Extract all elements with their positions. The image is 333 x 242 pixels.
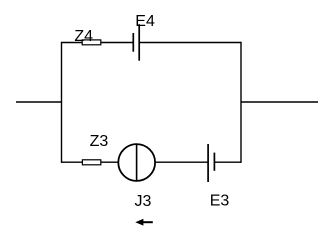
battery E3 long plate (207, 144, 209, 182)
current direction arrow (142, 221, 153, 223)
wire: E3 to bottom-right corner (214, 161, 241, 163)
resistor Z3 (82, 160, 100, 165)
wire: left vertical branch (61, 42, 63, 163)
svg-text:E4: E4 (135, 13, 155, 30)
wire: right external lead (241, 101, 318, 103)
battery E4 long plate (138, 24, 140, 61)
svg-text:J3: J3 (135, 193, 152, 210)
wire: left external lead (16, 101, 62, 103)
wire: current source to E3 (155, 161, 208, 163)
wire: bottom branch, node to Z3 (62, 161, 83, 163)
resistor Z4 (82, 40, 101, 45)
wire: Z4 to E4 (101, 42, 134, 44)
battery E4 short plate (132, 33, 134, 52)
current source J3 (118, 144, 155, 181)
wire: right vertical branch (240, 42, 242, 163)
wire: Z3 to current source (101, 161, 118, 163)
svg-text:E3: E3 (210, 193, 230, 210)
battery E3 short plate (213, 153, 215, 171)
svg-text:Z4: Z4 (74, 28, 93, 45)
svg-text:Z3: Z3 (90, 133, 109, 150)
current source J3 internal bar (136, 144, 138, 181)
wire: E4 to top-right corner (139, 42, 241, 44)
wire: top branch, node to Z4 (62, 42, 83, 44)
